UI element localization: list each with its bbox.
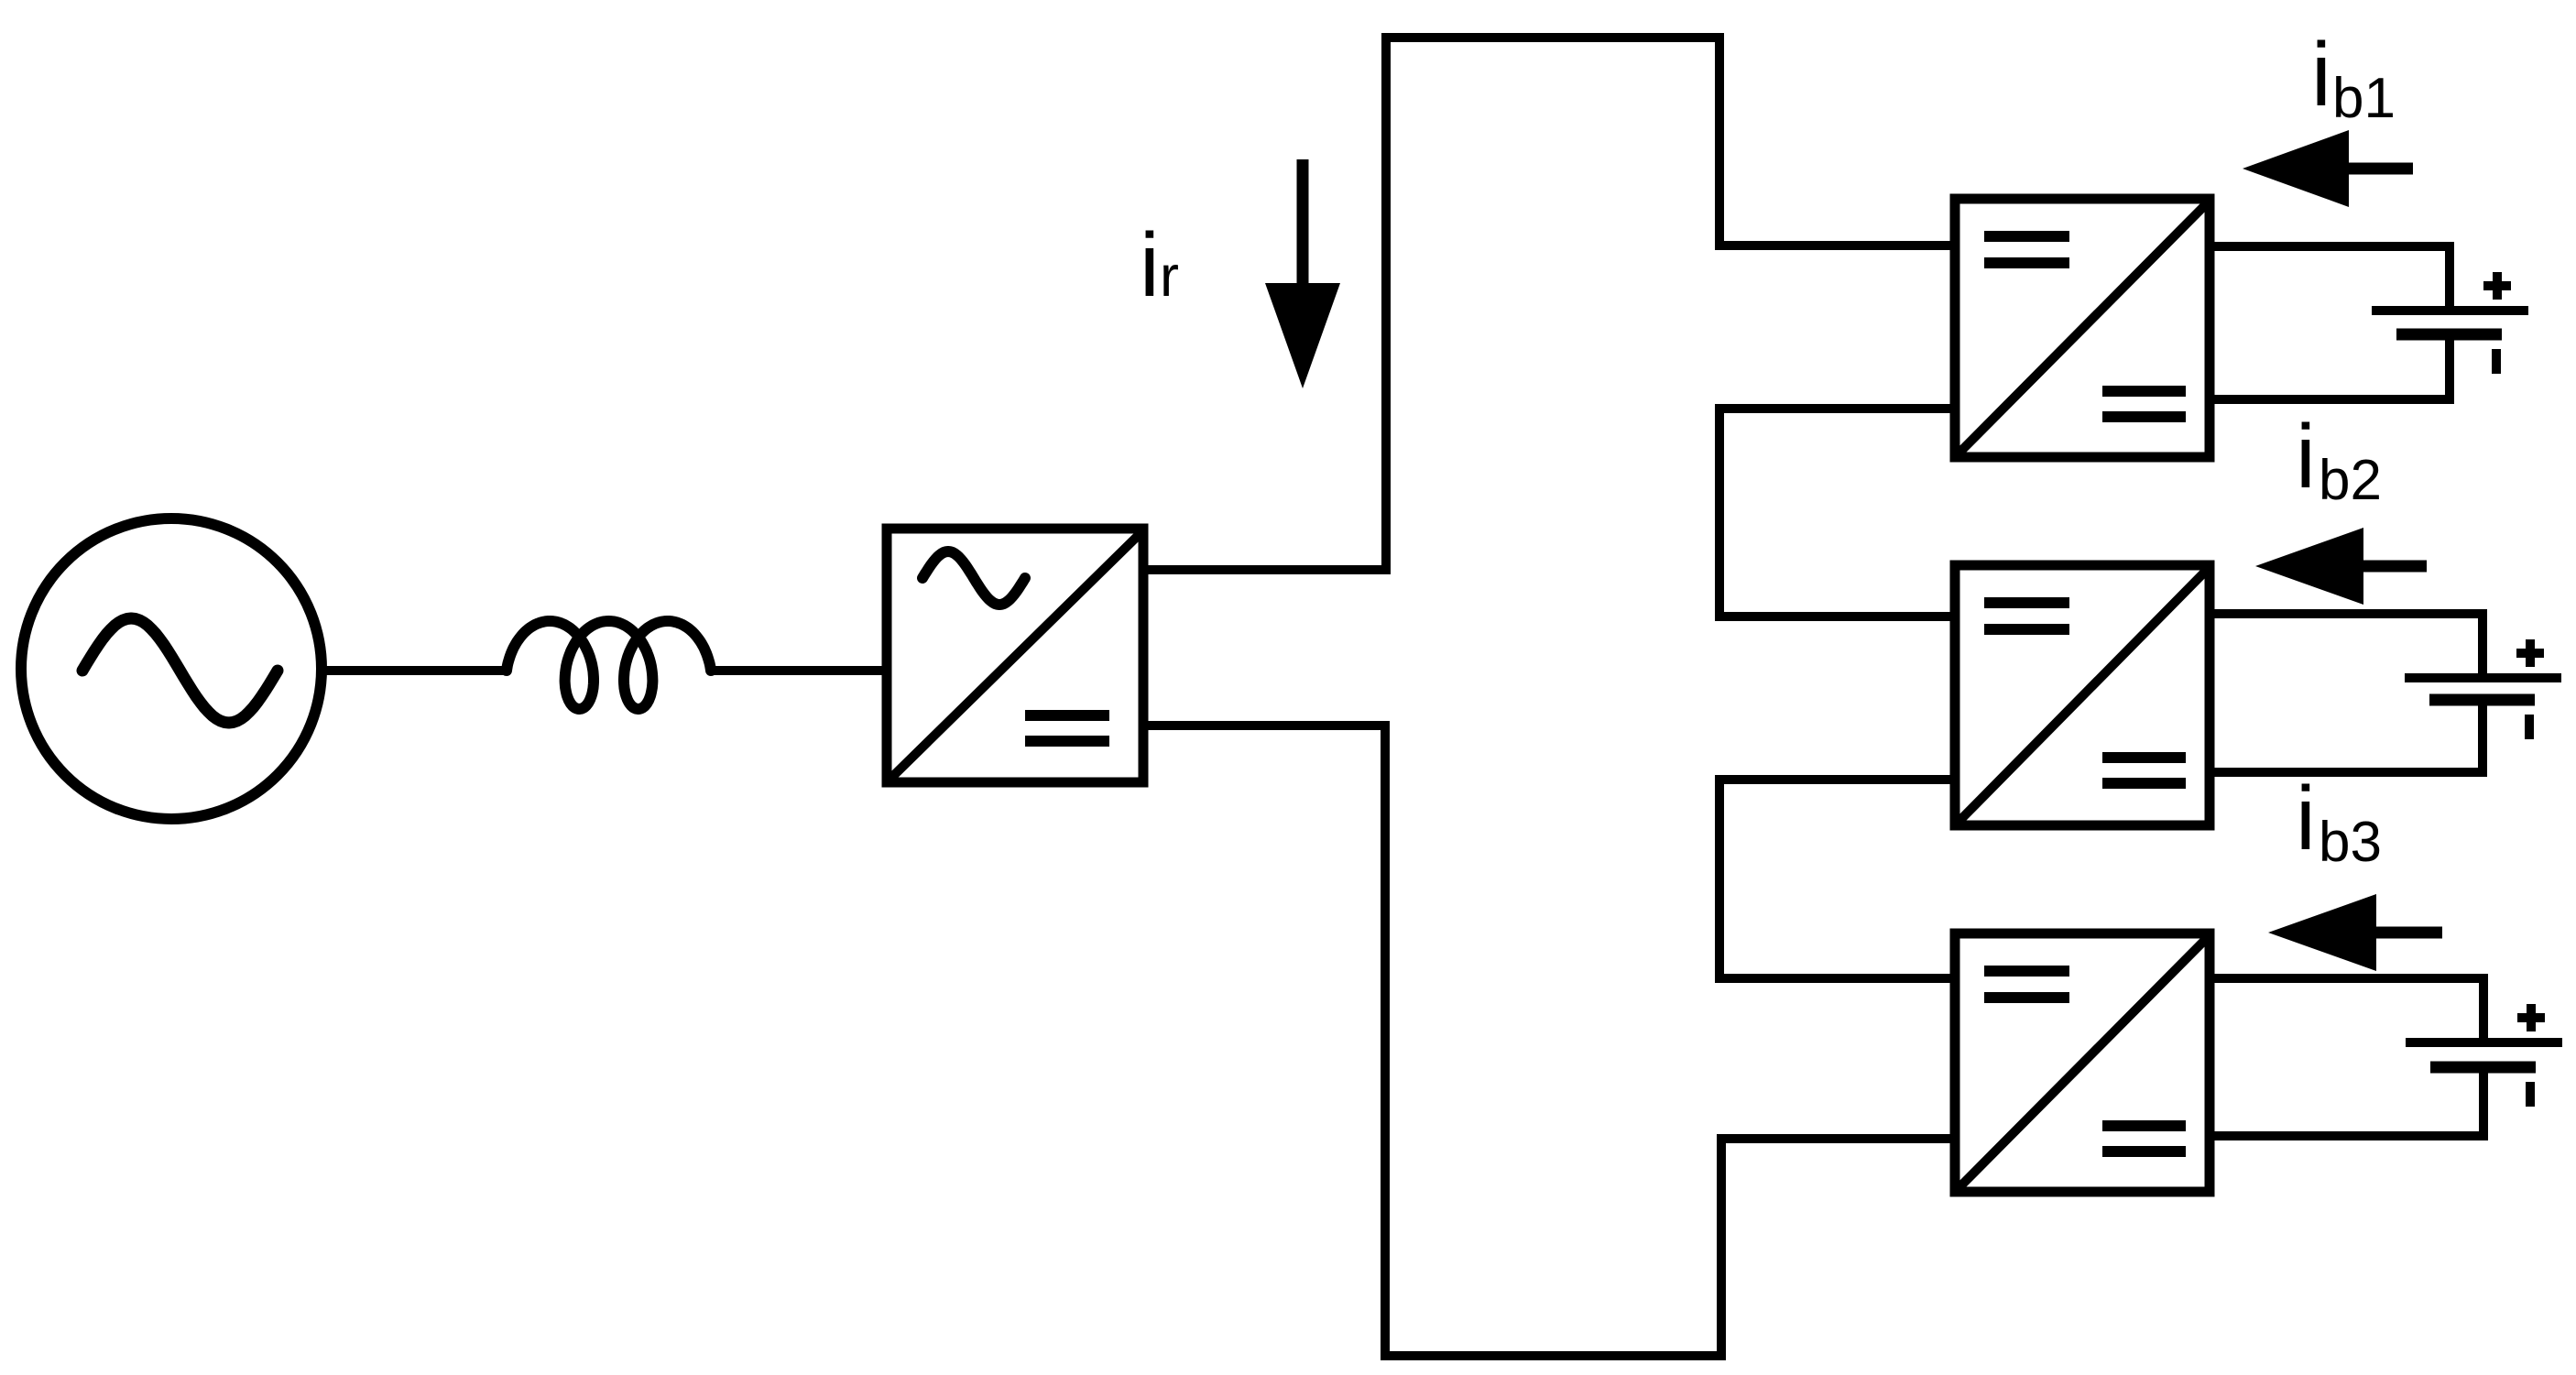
arrow ib1 [2243, 130, 2413, 207]
battery B1 negative plate [2396, 329, 2502, 341]
battery B1 plus sign [2483, 272, 2511, 300]
wire: rectifier negative output to bottom DC bus [1143, 726, 1959, 1356]
wire: battery B3 negative to converter3 [2210, 1067, 2483, 1136]
rectifier U1 (AC/DC converter) box [887, 529, 1143, 782]
converter U4 (DC/DC 3) box [1955, 933, 2210, 1192]
inductor L [507, 621, 711, 709]
battery B1 positive plate [2372, 306, 2528, 315]
svg-text:i: i [2311, 24, 2331, 125]
svg-text:i: i [2296, 768, 2316, 868]
battery B3 negative plate [2430, 1062, 2536, 1074]
svg-text:r: r [1160, 245, 1179, 309]
AC source sine symbol [82, 618, 278, 723]
wire: series link converter2 bottom to converter3 top [1719, 780, 1959, 978]
wire: rectifier positive output to top DC bus [1143, 38, 1959, 570]
wire: converter3 to battery B3 positive [2210, 978, 2483, 1042]
svg-text:b1: b1 [2332, 67, 2396, 130]
svg-text:i: i [1140, 214, 1160, 315]
battery B2 negative plate [2429, 694, 2535, 706]
converter U2 (DC/DC 1) box [1955, 199, 2210, 457]
svg-text:b3: b3 [2319, 811, 2382, 874]
battery B3 positive plate [2406, 1038, 2562, 1047]
arrow ib3 [2268, 894, 2442, 971]
battery B2 positive plate [2405, 673, 2561, 682]
battery B3 plus sign [2517, 1004, 2545, 1031]
wire from inductor to rectifier [709, 666, 882, 675]
wire: converter1 to battery B1 positive [2210, 246, 2450, 311]
arrow ib2 [2255, 528, 2427, 605]
AC source Vg circle [21, 518, 322, 819]
label ib1 [2311, 24, 2396, 130]
wire: battery B1 negative to converter1 [2210, 334, 2450, 399]
wire from AC source to inductor [322, 666, 508, 675]
battery B1 minus sign [2492, 349, 2501, 374]
label ib3 [2296, 768, 2382, 874]
battery B2 plus sign [2516, 639, 2544, 667]
svg-text:b2: b2 [2319, 449, 2382, 512]
label ir [1140, 214, 1179, 315]
svg-text:i: i [2296, 406, 2316, 507]
wire: battery B2 negative to converter2 [2210, 700, 2483, 772]
battery B3 minus sign [2526, 1082, 2535, 1107]
label ib2 [2296, 406, 2382, 512]
wire: converter2 to battery B2 positive [2210, 614, 2483, 678]
wire: series link converter1 bottom to converter2 top [1719, 409, 1959, 617]
arrow ir (downward current arrow) [1265, 159, 1340, 388]
battery B2 minus sign [2525, 715, 2534, 739]
converter U3 (DC/DC 2) box [1955, 565, 2210, 825]
